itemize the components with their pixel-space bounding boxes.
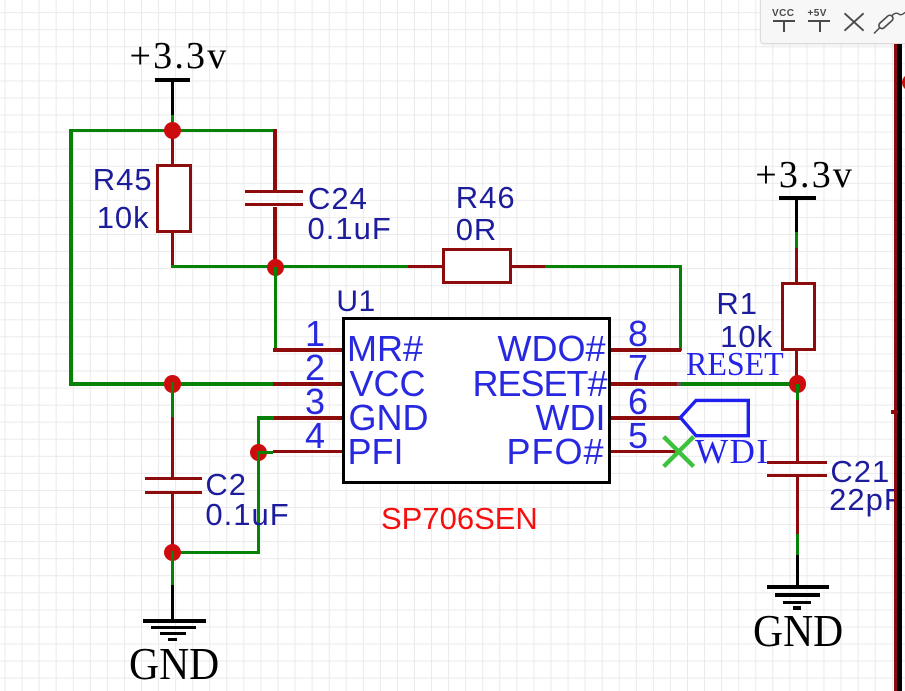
power flag +3.3v (right) stem <box>795 198 798 234</box>
wire into right GND <box>796 534 799 556</box>
power flag +3.3v (left) text <box>130 37 229 75</box>
ground (right) bar 2 <box>775 593 820 597</box>
resistor R1 bottom lead <box>795 351 798 386</box>
power flag +3.3v (right) text <box>755 156 854 194</box>
pin name MR# <box>347 331 423 367</box>
wire vertical x=680.5 down to pin 8 <box>679 265 682 352</box>
toolbar +5V icon stem <box>819 22 821 32</box>
pin 6 line <box>611 416 680 419</box>
junction dot below C2 <box>164 544 181 561</box>
pin name WDI <box>536 400 606 436</box>
wire pin3 horizontal <box>257 416 274 419</box>
power flag +3.3v (left) bar <box>155 78 191 82</box>
C24 label <box>308 183 368 214</box>
toolbar probe pen icon <box>870 8 905 36</box>
capacitor C21 plate 1 <box>767 461 828 464</box>
toolbar +5V icon bar <box>808 20 830 22</box>
capacitor C24 plate 2 <box>245 203 303 206</box>
partial junction dot at right edge <box>902 74 905 91</box>
capacitor C2 top lead <box>171 417 174 479</box>
junction dot below C24 <box>267 259 284 276</box>
pin 7 line <box>611 382 680 385</box>
capacitor C21 plate 2 <box>767 474 828 477</box>
toolbar VCC icon stem <box>783 22 785 32</box>
ground (right) bar 3 <box>783 601 811 605</box>
capacitor C2 wire from VCC junction <box>171 382 174 418</box>
ground (left) bar 4 <box>168 638 177 642</box>
capacitor C21 bottom lead <box>796 477 799 535</box>
capacitor C24 bottom lead <box>273 207 276 269</box>
pin name VCC <box>350 366 426 402</box>
wire into left GND <box>171 551 174 587</box>
no-connect X on pin 5 <box>659 432 699 472</box>
ground (left) bar 2 <box>151 626 196 630</box>
C21 value 22pF <box>829 484 904 515</box>
R1 value 10k <box>720 321 773 352</box>
capacitor C24 plate 1 <box>245 190 303 193</box>
ground (right) stem <box>796 555 799 589</box>
ground (left) bar 1 <box>143 619 206 623</box>
resistor R46 right lead <box>512 265 547 268</box>
pin number 3 <box>303 384 327 420</box>
resistor R46 left lead <box>408 265 443 268</box>
net label RESET <box>686 348 784 382</box>
pin name RESET# <box>472 366 606 402</box>
pin name PFI <box>348 434 404 470</box>
partial wire at right edge <box>894 44 898 691</box>
ground (right) GND text <box>753 608 843 654</box>
wire top horizontal y=131 <box>69 129 275 132</box>
C21 label <box>830 456 890 487</box>
pin name WDO# <box>498 331 606 367</box>
pin number 6 <box>626 384 650 420</box>
ground (left) GND text <box>129 641 219 687</box>
pin 5 line <box>611 450 677 453</box>
ground (left) stem <box>171 585 174 623</box>
wire y=266.5 from R46 to WDO branch <box>545 265 682 268</box>
wire y=552.3 horizontal <box>171 551 261 554</box>
capacitor C24 top lead <box>273 129 276 190</box>
U1 reference label <box>336 287 375 317</box>
toolbar panel <box>760 0 905 44</box>
resistor R45 top lead <box>171 131 174 166</box>
wire below right power stem <box>795 232 798 250</box>
pin 4 line <box>273 450 343 453</box>
wire pin3 vertical down <box>257 416 260 454</box>
pin number 7 <box>626 350 650 386</box>
resistor R1 body <box>781 282 816 351</box>
pin name PFO# <box>506 434 604 470</box>
junction dot RESET net <box>789 375 806 392</box>
pin 7 connection marker <box>677 382 680 386</box>
wire left vertical x=71 <box>69 129 72 386</box>
pin 3 line <box>273 416 343 419</box>
junction dot at +3.3v feed <box>164 122 181 139</box>
wire below RESET junction <box>796 384 799 402</box>
capacitor C21 top lead <box>796 400 799 462</box>
capacitor C2 bottom lead <box>171 493 174 554</box>
ground (right) bar 1 <box>767 585 830 589</box>
partial IC border at right edge <box>897 44 902 691</box>
pin number 2 <box>303 350 327 386</box>
resistor R45 body <box>156 164 192 233</box>
C2 label <box>205 469 247 500</box>
R46 value 0R <box>456 214 498 245</box>
wire x=258.8 down to GND net <box>257 451 260 555</box>
junction dot pin4 <box>250 444 267 461</box>
toolbar VCC icon text <box>772 8 794 19</box>
pin number 4 <box>303 418 327 454</box>
pin 2 line <box>273 382 343 385</box>
net flag WDI text <box>695 434 769 469</box>
resistor R46 body <box>442 248 513 285</box>
wire pin7 to junction <box>679 382 792 385</box>
pin 1 line <box>273 348 343 351</box>
ground (right) bar 4 <box>793 606 801 610</box>
ground (left) bar 3 <box>160 632 186 636</box>
power flag +3.3v (left) stem <box>171 80 174 117</box>
C24 value 0.1uF <box>308 213 392 244</box>
R46 label <box>456 182 516 213</box>
pin name GND <box>349 400 429 436</box>
partial pin tick at right edge <box>891 410 898 414</box>
R45 value 10k <box>97 202 150 233</box>
wire y=266.5 from R45 to R46 <box>171 265 411 268</box>
U1 part name SP706SEN <box>381 503 538 534</box>
pin number 8 <box>626 316 650 352</box>
wire VCC horizontal y=384 <box>69 382 273 385</box>
pin number 1 <box>303 316 327 352</box>
capacitor C2 plate 1 <box>145 477 202 480</box>
R45 label <box>93 164 153 195</box>
pin 8 line <box>611 348 681 351</box>
net flag WDI pentagon <box>676 396 752 440</box>
wire pin4 stub <box>257 451 273 454</box>
op IC U1 body <box>342 317 611 485</box>
toolbar no-connect X icon <box>842 11 866 33</box>
R1 label <box>716 288 758 319</box>
junction dot on VCC wire <box>164 375 181 392</box>
wire from +3.3v stem to junction <box>171 115 174 132</box>
power flag +3.3v (right) bar <box>779 196 815 200</box>
C2 value 0.1uF <box>205 499 289 530</box>
toolbar VCC icon bar <box>773 20 795 22</box>
resistor R1 top lead <box>795 248 798 283</box>
pin number 5 <box>626 418 650 454</box>
capacitor C2 plate 2 <box>145 491 202 494</box>
wire from junction down to pin 1 <box>274 267 277 352</box>
toolbar +5V icon text <box>808 8 827 19</box>
resistor R45 bottom lead <box>171 233 174 268</box>
